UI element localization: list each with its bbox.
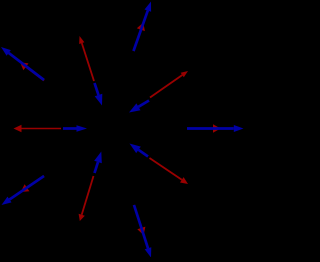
- blue arrow (short, inward, lower-right ray): [130, 144, 149, 157]
- blue arrow (short, inward, upper-right ray): [129, 101, 149, 113]
- blue arrow (short, inward, top ray): [95, 83, 103, 106]
- red arrow (short, outward, upper-left ray): [20, 62, 44, 80]
- blue arrow (short, inward, left ray): [63, 125, 87, 132]
- blue arrow (short, inward, bottom ray): [94, 152, 102, 174]
- blue arrow (long, outward, upper-right steep ray): [134, 2, 152, 52]
- blue arrow (long, outward, lower-left ray): [2, 176, 45, 205]
- red arrow (short, outward, right ray): [187, 124, 221, 133]
- red arrow (short, outward, lower-left ray): [21, 176, 44, 192]
- red arrow (long, outward, top ray): [79, 36, 94, 81]
- blue arrow (long, outward, bottom steep ray): [134, 205, 151, 258]
- red arrow (short, outward, bottom steep ray): [134, 205, 145, 235]
- red arrow (short, outward, upper-right steep ray): [134, 23, 145, 51]
- red arrow (long, outward, lower-right ray): [150, 158, 189, 184]
- red arrow (long, outward, left ray): [14, 125, 62, 132]
- red arrow (long, outward, bottom ray): [79, 176, 94, 221]
- blue arrow (long, outward, right ray): [187, 125, 244, 132]
- blue arrow (long, outward, upper-left ray): [1, 47, 44, 80]
- red arrow (long, outward, upper-right ray): [150, 71, 188, 98]
